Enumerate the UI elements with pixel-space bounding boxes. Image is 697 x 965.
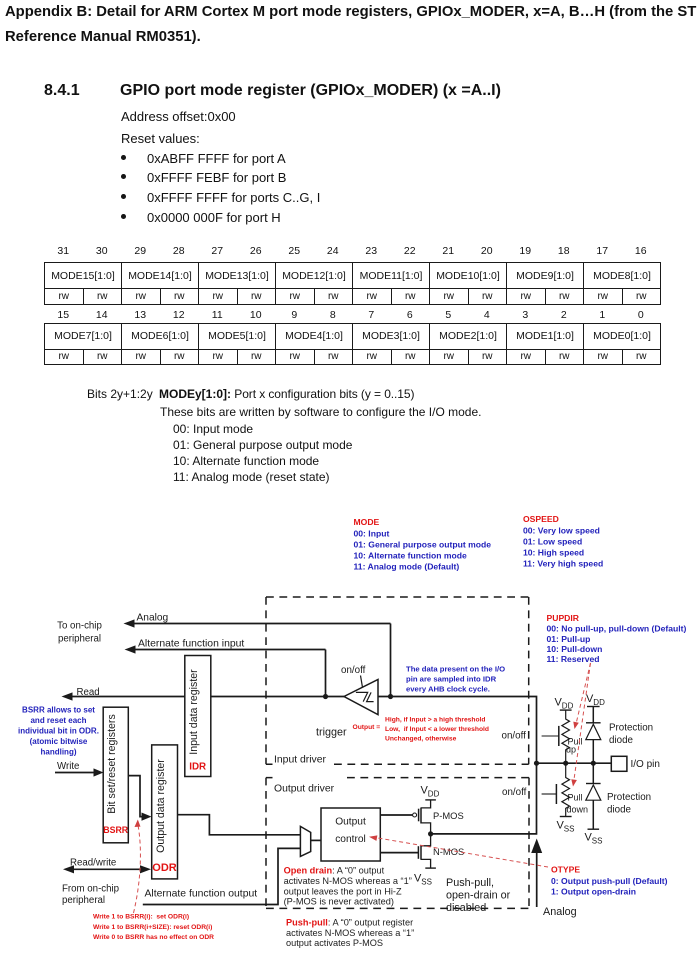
svg-text:ODR: ODR xyxy=(152,862,177,874)
svg-text:peripheral: peripheral xyxy=(62,895,105,906)
svg-text:Protection: Protection xyxy=(607,792,651,803)
svg-text:Analog: Analog xyxy=(543,906,577,918)
label VDD diode top xyxy=(586,693,605,707)
label VDD P-MOS xyxy=(421,785,440,799)
arrowhead read/write left xyxy=(63,865,74,873)
label analog bottom xyxy=(543,906,577,918)
svg-text:SS: SS xyxy=(564,825,575,834)
svg-text:up: up xyxy=(566,745,576,755)
VDD bar pull-up xyxy=(560,709,572,711)
wire: analog input net xyxy=(133,624,391,697)
output driver dashed box xyxy=(266,778,529,909)
red dashed arrow BSRR note to ODR wire xyxy=(134,820,141,914)
I/O pin pad xyxy=(611,756,627,771)
note BSRR description xyxy=(18,706,99,757)
svg-text:N-MOS: N-MOS xyxy=(433,846,464,857)
junction node MOS drain xyxy=(428,831,433,836)
svg-text:Output data register: Output data register xyxy=(155,759,167,853)
red dashed arrow OTYPE to output control xyxy=(369,835,548,867)
svg-text:(atomic bitwise: (atomic bitwise xyxy=(30,737,88,746)
bullet 2 xyxy=(121,174,126,179)
label on/off pull-down xyxy=(502,787,527,798)
note PUPDIR values xyxy=(547,613,687,664)
svg-text:every AHB clock cycle.: every AHB clock cycle. xyxy=(406,685,490,694)
svg-text:diode: diode xyxy=(609,735,634,746)
svg-text:Pull: Pull xyxy=(568,793,583,803)
arrowhead BSRR to ODR xyxy=(142,813,152,821)
note BSRR write rules xyxy=(93,914,214,942)
svg-text:peripheral: peripheral xyxy=(58,634,101,645)
svg-text:on/off: on/off xyxy=(502,731,527,742)
trigger on/off lead xyxy=(361,676,363,688)
svg-text:trigger: trigger xyxy=(316,727,347,739)
protection diode top xyxy=(586,707,601,764)
svg-text:Low, if Input < a lower thres: Low, if Input < a lower threshold xyxy=(385,726,489,733)
svg-text:DD: DD xyxy=(593,698,605,707)
svg-text:SS: SS xyxy=(592,837,603,846)
bits description xyxy=(87,387,153,401)
red dashed arrow PUPDIR to pull-down xyxy=(571,663,590,787)
svg-text:disabled: disabled xyxy=(446,902,486,914)
svg-text:Write 0 to BSRR has no effect: Write 0 to BSRR has no effect on ODR xyxy=(93,934,214,941)
transistor N-MOS xyxy=(418,834,430,868)
label from on-chip peripheral xyxy=(62,884,119,907)
svg-text:Output =: Output = xyxy=(353,724,381,731)
svg-text:DD: DD xyxy=(562,702,574,711)
register table xyxy=(0,0,697,1)
junction node diode branch xyxy=(591,761,596,766)
arrowhead write xyxy=(94,768,104,776)
note push-pull behaviour xyxy=(286,918,414,949)
svg-text:Alternate function input: Alternate function input xyxy=(138,639,244,650)
address offset xyxy=(121,109,236,124)
svg-text:on/off: on/off xyxy=(341,665,366,676)
svg-text:on/off: on/off xyxy=(502,787,527,798)
svg-text:Open drain: A “0” output: Open drain: A “0” output xyxy=(284,866,385,876)
svg-text:10: Alternate function mode: 10: Alternate function mode xyxy=(354,551,468,561)
svg-text:Unchanged, otherwise: Unchanged, otherwise xyxy=(385,736,457,743)
svg-text:OTYPE: OTYPE xyxy=(551,865,580,875)
svg-text:output activates P-MOS: output activates P-MOS xyxy=(286,938,383,948)
svg-text:Protection: Protection xyxy=(609,723,653,734)
svg-text:Push-pull,: Push-pull, xyxy=(446,877,494,889)
svg-text:Alternate function output: Alternate function output xyxy=(145,889,258,900)
svg-text:10: Pull-down: 10: Pull-down xyxy=(547,644,603,654)
svg-text:Push-pull: A “0” output regist: Push-pull: A “0” output register xyxy=(286,918,413,928)
svg-text:0: Output push-pull (Default): 0: Output push-pull (Default) xyxy=(551,876,668,886)
label read/write xyxy=(70,857,116,868)
svg-text:OSPEED: OSPEED xyxy=(523,514,559,524)
wire: ODR to multiplexer xyxy=(178,815,301,835)
note OSPEED values xyxy=(523,514,603,569)
svg-text:diode: diode xyxy=(607,805,632,816)
VSS bar N-MOS xyxy=(425,867,436,869)
VDD bar diode top xyxy=(587,706,600,708)
svg-text:01: Pull-up: 01: Pull-up xyxy=(547,634,591,644)
label protection diode top xyxy=(609,723,653,747)
arrowhead analog output xyxy=(531,839,542,854)
svg-text:pin are sampled into IDR: pin are sampled into IDR xyxy=(406,675,497,684)
section heading xyxy=(120,82,501,100)
junction node I/O column xyxy=(534,761,539,766)
junction node AF input / read xyxy=(323,694,328,699)
label VSS N-MOS xyxy=(414,873,432,887)
wire: I/O pin line xyxy=(537,762,612,764)
label analog xyxy=(137,613,169,624)
svg-text:00: Very low speed: 00: Very low speed xyxy=(523,526,600,536)
arrowhead analog input xyxy=(124,619,135,627)
svg-text:Output: Output xyxy=(335,817,366,828)
label write xyxy=(57,761,79,772)
protection diode bottom xyxy=(586,763,601,829)
svg-text:The data present on the I/O: The data present on the I/O xyxy=(406,665,505,674)
transistor P-MOS xyxy=(413,800,431,834)
wire: read/write double arrow xyxy=(73,868,143,870)
title line 1 xyxy=(5,4,696,20)
svg-text:01: General purpose output mod: 01: General purpose output mode xyxy=(354,540,492,550)
svg-text:Write 1 to BSRR(i): set ODR(i: Write 1 to BSRR(i): set ODR(i) xyxy=(93,914,189,921)
output control box xyxy=(321,808,380,861)
svg-text:(P-MOS is never activated): (P-MOS is never activated) xyxy=(284,897,394,907)
label push-pull open-drain or disabled xyxy=(446,877,511,914)
svg-text:PUPDIR: PUPDIR xyxy=(547,613,580,623)
svg-text:Input driver: Input driver xyxy=(274,755,327,766)
svg-text:DD: DD xyxy=(428,790,440,799)
svg-text:individual bit in ODR.: individual bit in ODR. xyxy=(18,727,99,736)
svg-text:IDR: IDR xyxy=(189,762,206,773)
VSS bar diode bottom xyxy=(588,828,600,830)
svg-text:10: High speed: 10: High speed xyxy=(523,548,584,558)
pull-down switch and resistor xyxy=(542,763,570,816)
svg-text:To on-chip: To on-chip xyxy=(57,621,102,632)
wire: multiplexer to output control xyxy=(311,839,321,841)
label pull-down xyxy=(567,793,589,815)
svg-text:Read: Read xyxy=(77,687,100,698)
svg-text:MODE: MODE xyxy=(354,517,380,527)
section number xyxy=(44,82,80,100)
svg-text:P-MOS: P-MOS xyxy=(433,810,464,821)
svg-text:Output driver: Output driver xyxy=(274,784,335,795)
arrowhead read xyxy=(62,692,73,700)
label I/O pin xyxy=(631,759,660,770)
bullet 4 xyxy=(121,214,126,219)
svg-text:I/O pin: I/O pin xyxy=(631,759,660,770)
wire: alternate function input net xyxy=(134,650,326,697)
svg-text:High, if Input > a high thresh: High, if Input > a high threshold xyxy=(385,717,486,724)
wire: read net xyxy=(72,696,345,698)
svg-text:1: Output open-drain: 1: Output open-drain xyxy=(551,887,636,897)
svg-text:control: control xyxy=(335,834,366,845)
wire: trigger output to I/O column xyxy=(378,697,537,834)
note OTYPE values xyxy=(551,865,668,897)
bullet 3 xyxy=(121,194,126,199)
junction node pull branch xyxy=(563,761,568,766)
label pull-up xyxy=(566,737,583,755)
label output driver xyxy=(274,784,335,795)
title line 2 xyxy=(5,29,201,45)
label input driver xyxy=(274,755,327,766)
junction node analog / trigger input xyxy=(388,694,393,699)
svg-text:Read/write: Read/write xyxy=(70,857,116,868)
wire: BSRR to ODR xyxy=(128,776,143,817)
pull-up switch and resistor xyxy=(542,710,570,763)
label trigger xyxy=(316,727,347,739)
wire: write arrow xyxy=(55,772,95,774)
arrowhead read/write right xyxy=(140,865,151,873)
svg-text:SS: SS xyxy=(421,878,432,887)
bullet 1 xyxy=(121,155,126,160)
red dashed arrow PUPDIR to pull-up xyxy=(573,663,590,729)
svg-text:activates N-MOS whereas a “1”: activates N-MOS whereas a “1” xyxy=(286,928,414,938)
wire: output control to P-MOS gate xyxy=(380,814,412,816)
svg-text:open-drain or: open-drain or xyxy=(446,890,511,902)
trigger symbol U1 xyxy=(344,680,378,715)
label protection diode bottom xyxy=(607,792,651,816)
svg-text:01: Low speed: 01: Low speed xyxy=(523,537,582,547)
svg-text:BSRR allows to set: BSRR allows to set xyxy=(22,706,95,715)
label N-MOS xyxy=(433,846,464,857)
label read xyxy=(77,687,100,698)
label to on-chip peripheral xyxy=(57,621,102,645)
svg-text:BSRR: BSRR xyxy=(103,825,129,835)
label VDD pull-up xyxy=(555,697,574,711)
output data register box ODR xyxy=(152,745,178,879)
note open drain behaviour xyxy=(284,866,412,907)
wire: output control to N-MOS gate xyxy=(380,852,418,854)
label alternate function input xyxy=(138,639,244,650)
label VSS diode bottom xyxy=(585,832,603,846)
svg-text:Write: Write xyxy=(57,761,79,772)
arrowhead alternate function input xyxy=(125,645,136,653)
svg-text:From on-chip: From on-chip xyxy=(62,884,119,895)
label P-MOS xyxy=(433,810,464,821)
note MODE values xyxy=(354,517,492,572)
svg-text:Input data register: Input data register xyxy=(188,669,200,755)
label alternate function output xyxy=(145,889,258,900)
svg-text:and reset each: and reset each xyxy=(30,716,86,725)
input data register box IDR xyxy=(185,656,211,777)
bit set/reset register box BSRR xyxy=(103,707,129,843)
svg-text:Bit set/reset registers: Bit set/reset registers xyxy=(106,714,118,814)
wire: analog output with up arrow xyxy=(536,846,538,907)
svg-text:Analog: Analog xyxy=(137,613,169,624)
svg-text:00: No pull-up, pull-down (Def: 00: No pull-up, pull-down (Default) xyxy=(547,624,687,634)
label VSS pull-down xyxy=(557,820,575,834)
svg-text:down: down xyxy=(567,805,589,815)
VDD bar P-MOS xyxy=(425,799,436,801)
multiplexer xyxy=(300,826,310,856)
reset values xyxy=(121,131,200,146)
label on/off pull-up xyxy=(502,731,527,742)
input driver dashed box xyxy=(266,597,529,764)
wire: alternate function output to multiplexer xyxy=(143,848,300,904)
note IDR sampling xyxy=(406,665,505,694)
svg-text:handling): handling) xyxy=(41,748,77,757)
svg-text:11: Very high speed: 11: Very high speed xyxy=(523,559,603,569)
svg-text:activates N-MOS whereas a “1”: activates N-MOS whereas a “1” xyxy=(284,876,412,886)
note trigger output rule xyxy=(353,717,489,743)
svg-text:output leaves the port in Hi-Z: output leaves the port in Hi-Z xyxy=(284,887,402,897)
label on/off trigger xyxy=(341,665,366,676)
svg-text:11: Analog mode (Default): 11: Analog mode (Default) xyxy=(354,562,460,572)
svg-text:00: Input: 00: Input xyxy=(354,529,390,539)
svg-text:11: Reserved: 11: Reserved xyxy=(547,654,600,664)
svg-text:Write 1 to BSRR(i+SIZE): reset: Write 1 to BSRR(i+SIZE): reset ODR(i) xyxy=(93,924,212,931)
VSS bar pull-down xyxy=(560,816,572,818)
